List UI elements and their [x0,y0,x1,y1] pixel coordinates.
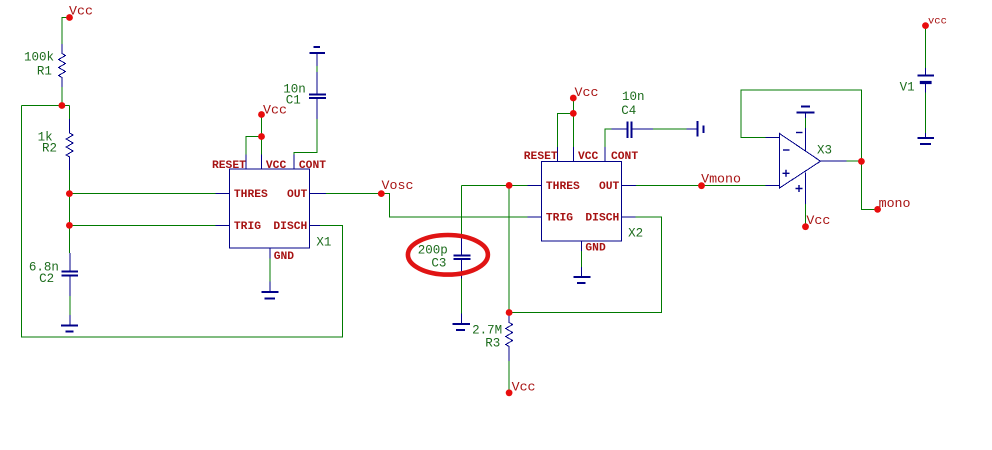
svg-text:Vcc: Vcc [69,3,93,18]
svg-text:CONT: CONT [299,160,326,172]
svg-text:OUT: OUT [287,189,308,201]
svg-text:DISCH: DISCH [585,213,619,225]
svg-text:RESET: RESET [524,151,558,163]
svg-text:THRES: THRES [234,189,268,201]
svg-text:Vosc: Vosc [382,178,414,193]
svg-text:VCC: VCC [578,151,599,163]
svg-text:DISCH: DISCH [273,221,307,233]
svg-text:Vcc: Vcc [512,380,536,395]
svg-text:Vcc: Vcc [806,213,830,228]
svg-text:10n: 10n [622,90,645,104]
svg-text:C1: C1 [286,94,301,108]
svg-text:2.7M: 2.7M [472,323,502,337]
svg-text:CONT: CONT [611,151,638,163]
svg-text:RESET: RESET [212,160,246,172]
svg-text:Vmono: Vmono [701,172,741,187]
svg-text:V1: V1 [900,80,915,94]
svg-text:R3: R3 [485,337,500,351]
svg-text:X1: X1 [316,235,331,249]
svg-text:TRIG: TRIG [546,213,573,225]
svg-text:X3: X3 [817,143,832,157]
svg-text:THRES: THRES [546,181,580,193]
svg-text:GND: GND [585,243,606,255]
svg-text:TRIG: TRIG [234,221,261,233]
svg-text:VCC: VCC [266,160,287,172]
svg-text:OUT: OUT [599,181,620,193]
svg-text:200p: 200p [418,243,448,257]
svg-text:C3: C3 [431,257,446,271]
svg-text:Vcc: Vcc [263,102,287,117]
svg-text:C2: C2 [39,272,54,286]
svg-text:R2: R2 [42,142,57,156]
svg-text:Vcc: Vcc [575,85,599,100]
svg-text:vcc: vcc [928,15,947,27]
svg-text:R1: R1 [37,65,52,79]
svg-text:GND: GND [274,251,295,263]
svg-text:mono: mono [879,196,911,211]
svg-text:X2: X2 [628,226,643,240]
svg-text:C4: C4 [621,104,636,118]
svg-text:100k: 100k [24,51,54,65]
